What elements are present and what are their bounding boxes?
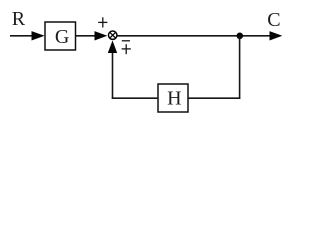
svg-text:H: H (167, 88, 181, 110)
wire: block H output left segment (112, 97, 158, 99)
wire: feedback line right segment into block H (188, 97, 240, 99)
block G (45, 22, 76, 50)
node C (output label) (267, 9, 280, 31)
block H (158, 84, 188, 112)
wire: pickoff point down to feedback line (239, 36, 241, 99)
wire: block G output to summing junction (with arrowhead) (76, 31, 108, 40)
plus sign label at summing junction upper input (98, 17, 107, 27)
wire: feedback up into summing junction (with arrowhead) (108, 40, 117, 99)
summing junction (circle with X) (109, 31, 117, 39)
junction dot (pickoff point on output wire) (237, 33, 244, 40)
wire: input R into block G (with arrowhead) (10, 31, 45, 40)
svg-text:G: G (55, 26, 69, 48)
wire: summing junction to output C (with arrowhead) (117, 31, 282, 40)
node R (input label) (12, 8, 26, 30)
minus-plus sign label at summing junction feedback input (122, 41, 131, 54)
svg-text:R: R (12, 8, 26, 30)
svg-text:C: C (267, 9, 280, 31)
